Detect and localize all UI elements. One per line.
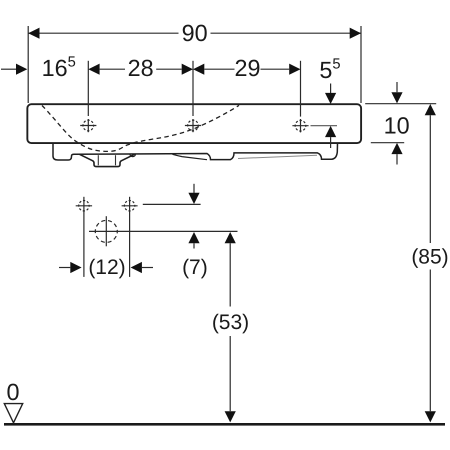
svg-text:(7): (7) (182, 256, 208, 279)
svg-text:0: 0 (6, 379, 19, 405)
svg-text:10: 10 (384, 112, 410, 138)
svg-text:(85): (85) (411, 246, 448, 269)
svg-text:29: 29 (234, 55, 260, 81)
svg-text:165: 165 (42, 55, 76, 82)
svg-text:90: 90 (182, 20, 208, 46)
svg-text:(53): (53) (212, 311, 249, 334)
svg-text:(12): (12) (88, 256, 125, 279)
svg-text:55: 55 (319, 57, 340, 84)
svg-text:28: 28 (128, 55, 154, 81)
